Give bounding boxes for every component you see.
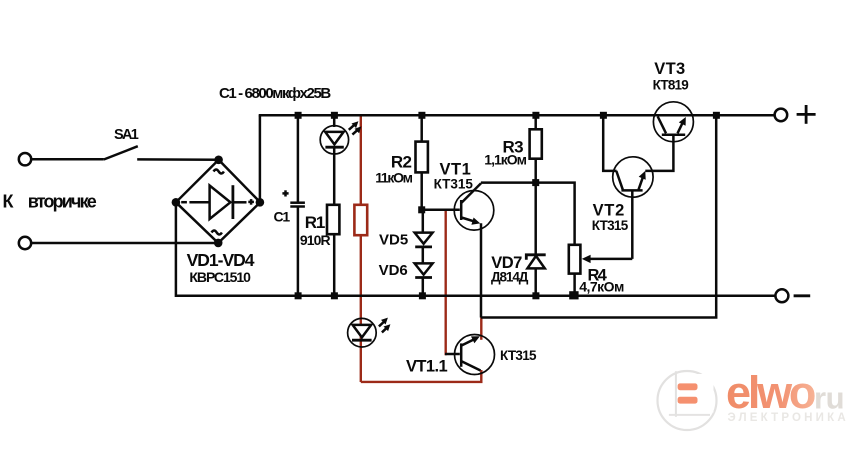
capacitor C1 plates	[290, 203, 305, 207]
label 910R	[300, 232, 331, 248]
transistor VT1 emitter lead with arrow	[462, 218, 481, 225]
transistor VT1 base bar	[460, 200, 463, 220]
logo vertical line	[675, 371, 677, 417]
transistor VT1.1 base stub	[445, 353, 460, 356]
svg-text:VT2: VT2	[593, 201, 625, 219]
wire VD5 to VD6	[422, 247, 425, 264]
label VD6	[379, 262, 408, 279]
junction VT1 base node	[418, 206, 425, 213]
LED HL2 diode triangle	[353, 325, 372, 338]
transistor VT1.1 emitter lead with arrow	[462, 336, 480, 345]
transistor VT2 collector lead	[603, 115, 623, 189]
svg-text:VD1-VD4: VD1-VD4	[187, 250, 255, 270]
label VD5	[379, 231, 408, 248]
transistor VT3 base bar	[662, 134, 685, 137]
label 4,7кОм	[579, 279, 624, 295]
red wire top rail to red resistor	[360, 116, 362, 206]
junction top rail R3	[532, 112, 539, 119]
label KBPC1510	[189, 269, 251, 285]
junction top rail VT2 collector	[600, 112, 607, 119]
label VT1	[440, 161, 472, 179]
transistor VT1.1 base bar	[460, 343, 463, 366]
transistor VT3 collector lead	[658, 117, 666, 134]
label C1 value	[219, 85, 331, 102]
diode VD6 triangle	[415, 263, 433, 274]
resistor R5 red body	[354, 205, 367, 235]
svg-text:C1 - 6800мкфх25В: C1 - 6800мкфх25В	[219, 85, 331, 102]
terminal input bottom	[19, 237, 31, 249]
bridge inner anode wire	[189, 201, 209, 204]
resistor R2 top wire	[420, 115, 423, 142]
label R4	[588, 266, 608, 284]
resistor R2 body	[416, 142, 428, 173]
LED HL2 arrow 2	[382, 324, 391, 332]
bridge inner plus sign	[248, 199, 254, 205]
label KT315 VT1.1	[500, 348, 537, 363]
wire VD7 to bottom rail	[534, 268, 537, 295]
red wire red resistor down through LED3 to corner	[360, 235, 362, 382]
wire node to VD7	[534, 183, 537, 255]
wire top positive rail	[259, 114, 775, 117]
transistor VT3 emitter lead with arrow	[678, 117, 686, 133]
red wire VT1.1 emitter up to output bus corner	[480, 318, 482, 340]
bridge vertex node right	[256, 198, 265, 207]
resistor R1 body	[327, 205, 339, 234]
label VT2	[593, 201, 625, 219]
rheostat R4 wiper arrow	[582, 255, 633, 263]
plus sign output	[797, 105, 816, 124]
wire VT1 base node to base	[422, 209, 460, 212]
LED HL2 arrow 1	[379, 318, 388, 327]
junction top rail R2	[418, 112, 425, 119]
svg-text:ru: ru	[814, 381, 844, 416]
svg-text:R1: R1	[305, 213, 325, 232]
LED HL2 circle	[348, 318, 377, 347]
svg-text:ЭЛЕКТРОНИКА: ЭЛЕКТРОНИКА	[728, 412, 849, 424]
transistor VT3 circle	[653, 102, 693, 142]
wire switch to bridge top	[137, 158, 218, 161]
label Д814Д	[491, 270, 529, 285]
svg-text:SA1: SA1	[114, 127, 139, 143]
resistor R3 top wire	[534, 115, 537, 129]
zener VD7 triangle	[527, 256, 544, 269]
wire node to R4 top	[536, 183, 575, 245]
wire VD6 to bottom rail	[422, 278, 425, 296]
logo circle	[658, 371, 717, 430]
LED HL1 top wire	[333, 115, 336, 127]
label R3	[503, 138, 524, 157]
wire emitter bus to plus rail	[481, 115, 716, 317]
junction bottom rail C1	[295, 292, 302, 299]
svg-text:1,1кОм: 1,1кОм	[484, 151, 526, 167]
bridge inner minus sign	[181, 201, 187, 204]
label 11кОм	[375, 169, 412, 185]
bridge vertex node left	[172, 198, 181, 207]
diode VD6 cathode bar	[415, 276, 432, 279]
svg-text:VD5: VD5	[379, 231, 408, 248]
wire R2 to VT1 base node	[420, 172, 423, 209]
wire input top to switch	[32, 158, 104, 161]
output terminal minus	[775, 289, 788, 302]
junction R3 VD7 node	[532, 179, 539, 186]
bridge vertex node bottom	[214, 239, 223, 248]
svg-text:КТ819: КТ819	[653, 77, 689, 92]
diode VD5 triangle	[415, 233, 433, 244]
label VD1-VD4	[187, 250, 255, 270]
svg-text:VT1.1: VT1.1	[406, 357, 447, 375]
LED HL2 cathode bar	[352, 339, 372, 342]
LED HL1 diode triangle	[325, 132, 343, 145]
label KT315 VT2	[592, 218, 629, 233]
transistor VT1 circle	[454, 191, 494, 231]
wire R3 to node	[534, 159, 537, 183]
logo text electronika	[728, 412, 849, 424]
wire VT2 base down to wiper	[631, 190, 634, 259]
svg-text:КТ315: КТ315	[434, 177, 474, 192]
wire bottom negative rail	[176, 295, 775, 298]
junction bottom rail VD6	[419, 292, 426, 299]
label 1,1кОм	[484, 151, 526, 167]
bridge AC tilde bottom	[212, 231, 222, 235]
transistor VT2 base bar	[621, 189, 642, 192]
svg-text:КТ315: КТ315	[592, 218, 629, 233]
bridge inner diode cathode bar	[231, 185, 234, 219]
logo E bar 1	[678, 383, 698, 390]
junction top rail C1	[295, 112, 302, 119]
svg-text:elwo: elwo	[726, 367, 815, 418]
label SA1	[114, 127, 139, 143]
rheostat R4 body	[569, 245, 581, 274]
output terminal plus	[775, 109, 788, 122]
bridge inner diode triangle	[210, 186, 231, 220]
label VT1.1	[406, 357, 447, 375]
LED HL1 circle	[320, 126, 348, 154]
label KT315 VT1	[434, 177, 474, 192]
transistor VT1 collector lead	[462, 183, 482, 203]
wire VT2 emitter to VT3 base	[645, 135, 673, 171]
wire LED HL1 to R1	[333, 147, 336, 205]
junction bottom rail R1	[331, 292, 338, 299]
svg-text:VD6: VD6	[379, 262, 408, 279]
wire VT1 emitter down	[480, 223, 483, 317]
label KT819	[653, 77, 689, 92]
svg-text:C1: C1	[274, 208, 291, 224]
transistor VT1.1 circle	[455, 335, 495, 375]
zener VD7 cathode bar with tail	[526, 255, 545, 260]
label VT3	[654, 60, 685, 78]
minus sign output	[794, 294, 811, 297]
svg-text:КТ315: КТ315	[500, 348, 537, 363]
bridge rectifier VD1-VD4 diamond	[176, 160, 260, 243]
label К вторичке	[3, 192, 97, 212]
label R1	[305, 213, 325, 232]
wire R4 to bottom rail	[573, 274, 576, 296]
switch SA1 arm	[104, 146, 138, 159]
logo text ru	[814, 381, 844, 416]
wire VT1 collector to R3 node	[481, 181, 536, 184]
LED HL1 arrow 1	[349, 121, 359, 130]
diode VD5 cathode bar	[415, 245, 432, 248]
logo underline	[669, 414, 710, 416]
transistor VT2 emitter lead with arrow	[639, 171, 646, 190]
wire R1 to bottom rail	[333, 234, 336, 295]
svg-text:4,7кОм: 4,7кОм	[579, 279, 624, 295]
svg-text:11кОм: 11кОм	[375, 169, 412, 185]
label VD7	[491, 254, 522, 272]
capacitor C1 bottom wire	[297, 207, 300, 296]
svg-text:КВРС1510: КВРС1510	[189, 269, 251, 285]
transistor VT1.1 collector lead	[461, 361, 481, 371]
LED HL1 arrow 2	[352, 126, 361, 134]
junction top rail output bus	[713, 112, 720, 119]
capacitor C1 plus sign	[282, 190, 288, 196]
transistor VT2 circle	[613, 157, 653, 197]
bridge vertex node top	[214, 156, 223, 165]
junction top rail HL1	[331, 112, 338, 119]
svg-text:К: К	[3, 192, 15, 212]
junction bottom rail VD7	[532, 292, 539, 299]
bridge inner cathode wire	[233, 201, 247, 204]
resistor R3 body	[530, 129, 542, 158]
wire node to VD5	[422, 210, 425, 233]
wire bridge left vertex to bottom rail	[175, 202, 178, 297]
capacitor C1 top wire	[297, 115, 300, 202]
LED HL1 cathode bar	[325, 146, 343, 149]
wire bridge right vertex to top rail	[259, 115, 262, 202]
wire input bottom to bridge bottom vertex	[32, 242, 219, 245]
bridge AC tilde top	[214, 170, 224, 174]
red wire bottom horizontal to VT1.1 collector	[361, 370, 482, 382]
label R2	[391, 153, 412, 172]
label C1	[274, 208, 291, 224]
svg-text:910R: 910R	[300, 232, 331, 248]
svg-text:VT3: VT3	[654, 60, 685, 78]
terminal input top	[19, 153, 31, 165]
logo E bar 2	[678, 397, 698, 404]
red wire VT1 base to VT1.1 base	[445, 210, 447, 355]
svg-text:вторичке: вторичке	[28, 192, 97, 212]
svg-text:Д814Д: Д814Д	[491, 270, 529, 285]
junction bottom rail R4	[569, 291, 578, 299]
